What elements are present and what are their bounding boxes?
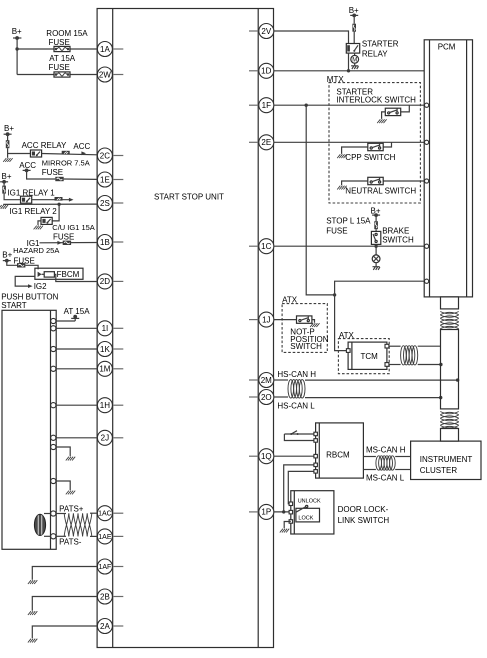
TCM pin (right lower) bbox=[385, 363, 389, 367]
RBCM pin (1Q) bbox=[314, 454, 318, 458]
pin 2V bbox=[249, 24, 274, 39]
svg-text:START STOP UNIT: START STOP UNIT bbox=[154, 193, 224, 202]
wire B+ to ROOM fuse to pin 1A bbox=[17, 48, 97, 50]
svg-text:2O: 2O bbox=[261, 393, 272, 402]
svg-text:1C: 1C bbox=[261, 242, 271, 251]
net arrow into C/U fuse bbox=[57, 241, 62, 245]
inline connector (IG1 line) bbox=[55, 197, 63, 201]
ground (push button a) bbox=[56, 447, 75, 460]
svg-text:1Q: 1Q bbox=[261, 452, 272, 461]
INSTRUMENT CLUSTER box bbox=[411, 441, 481, 479]
twisted pair (TCM-PCM harness) bbox=[401, 346, 418, 365]
wire pin 2M to twisted pair bbox=[274, 379, 288, 381]
wire RBCM to door lock (b) bbox=[288, 471, 314, 503]
wire twisted pair to cluster (MS-CAN H) bbox=[395, 456, 410, 458]
pin 1AC bbox=[97, 506, 123, 521]
svg-text:B+: B+ bbox=[12, 27, 22, 36]
twisted harness (lower) bbox=[440, 412, 458, 429]
svg-text:B+: B+ bbox=[2, 172, 12, 181]
wire 2S junction down to IG1 relay 2 bbox=[52, 204, 59, 221]
door lock pin (common) bbox=[289, 510, 293, 514]
svg-text:CLUSTER: CLUSTER bbox=[420, 466, 458, 475]
wire to pin 2S bbox=[3, 203, 97, 205]
fuse STOP L 15A bbox=[326, 217, 378, 236]
ground (1AF) bbox=[28, 567, 98, 585]
svg-text:STOP L 15A: STOP L 15A bbox=[326, 217, 371, 226]
wire twisted pair to harness trunk (upper) bbox=[418, 345, 441, 347]
svg-text:PATS-: PATS- bbox=[59, 537, 82, 546]
svg-text:1AF: 1AF bbox=[98, 564, 111, 571]
svg-text:1M: 1M bbox=[99, 365, 110, 374]
stop lamp bbox=[372, 246, 380, 267]
B+ power tap (starter relay) bbox=[349, 6, 359, 24]
svg-text:FBCM: FBCM bbox=[57, 270, 80, 279]
node junction brake switch on 1C wire bbox=[374, 245, 377, 248]
node junction starter relay on 1D wire bbox=[347, 69, 350, 72]
harness trunk stub above cluster bbox=[441, 429, 459, 442]
wire pin 1F to PCM (starter interlock line) bbox=[274, 104, 425, 106]
node junction on 1F wire bbox=[305, 104, 308, 107]
fuse (vertical, starter relay feed) bbox=[352, 24, 356, 32]
PCM box bbox=[424, 40, 472, 297]
wire RBCM to door lock (a) bbox=[284, 465, 314, 512]
wire hazard fuse to FBCM bbox=[25, 265, 38, 269]
svg-text:B+: B+ bbox=[2, 251, 12, 260]
wire HS-CAN L to trunk left edge bbox=[305, 396, 442, 399]
DOOR LOCK-LINK SWITCH box bbox=[291, 491, 334, 534]
wire twisted pair to cluster (MS-CAN L) bbox=[395, 469, 410, 471]
svg-text:INSTRUMENT: INSTRUMENT bbox=[420, 455, 473, 464]
ground (2B) bbox=[28, 597, 98, 616]
push button pin (gnd a) bbox=[51, 444, 56, 449]
B+ power tap (IG1 relays) bbox=[0, 172, 12, 185]
wire IG1 to fuse to pin 1B bbox=[40, 242, 98, 244]
svg-text:IG1 RELAY 2: IG1 RELAY 2 bbox=[9, 207, 57, 216]
push button pin (PATS-) bbox=[51, 534, 56, 539]
svg-text:FUSE: FUSE bbox=[42, 168, 63, 177]
wire push button to pin 1H bbox=[56, 404, 97, 406]
ground (not-P switch) bbox=[310, 323, 319, 327]
wire feed to ACC relay bbox=[8, 153, 31, 155]
wire pin 2O to twisted pair bbox=[274, 396, 288, 398]
svg-text:RELAY: RELAY bbox=[362, 50, 388, 59]
pin 2B bbox=[97, 589, 123, 604]
svg-text:1AE: 1AE bbox=[98, 534, 112, 541]
net arrow IG2 bbox=[15, 276, 47, 291]
wire pin 1P to door lock switch bbox=[274, 511, 291, 513]
svg-text:STARTER: STARTER bbox=[362, 40, 399, 49]
svg-text:2J: 2J bbox=[101, 434, 109, 443]
wire starter relay coil to 1D line bbox=[348, 53, 350, 71]
pin 2J bbox=[97, 430, 123, 445]
PCM pin bump (neutral) bbox=[425, 179, 429, 183]
svg-text:1P: 1P bbox=[261, 508, 271, 517]
svg-text:1E: 1E bbox=[100, 175, 110, 184]
wire pin 1C to PCM (brake line) bbox=[274, 245, 425, 247]
ground (IG1 relay 2) bbox=[34, 221, 43, 230]
start stop unit box bbox=[97, 8, 273, 648]
svg-text:2E: 2E bbox=[261, 138, 271, 147]
B+ power tap (stop lamp fuse) bbox=[371, 207, 381, 222]
switch NOT-P POSITION SWITCH bbox=[290, 316, 328, 351]
relay STARTER RELAY bbox=[346, 40, 398, 59]
MTX dashed box bbox=[327, 75, 421, 203]
wire pin 1D to PCM bbox=[274, 70, 424, 72]
label DOOR LOCK-LINK SWITCH bbox=[338, 505, 390, 525]
RBCM pin (loop a) bbox=[314, 432, 318, 436]
TCM pin (left) bbox=[346, 349, 350, 353]
twisted harness (upper) bbox=[440, 312, 458, 329]
svg-text:FUSE: FUSE bbox=[14, 257, 35, 266]
fuse MIRROR 7.5A bbox=[42, 159, 90, 182]
twisted pair (HS-CAN) bbox=[288, 380, 305, 398]
AT 15A power tap (push button) bbox=[56, 307, 90, 321]
svg-text:1B: 1B bbox=[100, 238, 110, 247]
svg-text:1K: 1K bbox=[100, 345, 110, 354]
pin 2E bbox=[249, 135, 274, 150]
wire PATS- to pin 1AE bbox=[56, 535, 97, 537]
ground (neutral switch) bbox=[337, 186, 346, 190]
switch NEUTRAL SWITCH bbox=[342, 177, 425, 195]
svg-text:M: M bbox=[352, 58, 357, 64]
svg-text:IG1 RELAY 1: IG1 RELAY 1 bbox=[7, 189, 55, 198]
svg-text:FUSE: FUSE bbox=[326, 226, 347, 235]
fuse C/U IG1 15A bbox=[52, 223, 95, 245]
ground (starter interlock switch) bbox=[377, 119, 386, 123]
svg-text:ACC: ACC bbox=[73, 142, 90, 151]
svg-text:ROOM 15A: ROOM 15A bbox=[46, 29, 88, 38]
RBCM pin (door b) bbox=[314, 470, 318, 474]
wire pin 1J to not-P switch bbox=[274, 319, 297, 321]
svg-text:ACC RELAY: ACC RELAY bbox=[22, 141, 67, 150]
svg-text:2M: 2M bbox=[261, 376, 272, 385]
PCM pin bump (brake) bbox=[425, 244, 429, 248]
node junction on 2S wire bbox=[57, 203, 60, 206]
pin 2A bbox=[97, 619, 123, 634]
svg-text:1D: 1D bbox=[261, 67, 271, 76]
svg-text:LOCK: LOCK bbox=[298, 515, 313, 521]
B+ power tap (top left) bbox=[12, 27, 22, 75]
fuse (vertical, ACC relay feed) bbox=[6, 140, 10, 148]
push button start box bbox=[1, 292, 58, 549]
B+ power tap (hazard fuse) bbox=[2, 251, 17, 266]
svg-text:C/U IG1 15A: C/U IG1 15A bbox=[52, 223, 95, 232]
PCM pin bump (interlock) bbox=[425, 103, 429, 107]
svg-text:MIRROR 7.5A: MIRROR 7.5A bbox=[42, 159, 90, 168]
svg-text:2W: 2W bbox=[99, 70, 111, 79]
push button pin (1K) bbox=[51, 346, 56, 351]
svg-text:MS-CAN L: MS-CAN L bbox=[366, 474, 405, 483]
harness trunk stub below PCM bbox=[441, 297, 459, 309]
wire HS-CAN H to trunk right edge bbox=[305, 378, 459, 381]
pin 1B bbox=[97, 235, 123, 250]
pin 2O bbox=[249, 390, 274, 405]
push button pin (AT15A) bbox=[51, 318, 56, 323]
wire mirror fuse to pin 1E bbox=[64, 178, 98, 180]
wire push button to pin 1M bbox=[56, 368, 97, 370]
push button pin (1H) bbox=[51, 403, 56, 408]
svg-text:2B: 2B bbox=[100, 592, 110, 601]
wire twisted pair to harness trunk (lower) with junction bbox=[418, 363, 443, 366]
node junction on 1A feed bbox=[15, 47, 18, 50]
svg-text:LINK SWITCH: LINK SWITCH bbox=[338, 516, 390, 525]
relay IG1 RELAY 2 bbox=[9, 207, 57, 225]
svg-text:AT 15A: AT 15A bbox=[64, 307, 91, 316]
svg-text:RBCM: RBCM bbox=[326, 451, 350, 460]
wire B+ to AT fuse to pin 2W bbox=[17, 74, 97, 76]
pin 1H bbox=[97, 398, 123, 413]
PCM pin bump (interlock feed) bbox=[425, 279, 429, 283]
svg-text:FUSE: FUSE bbox=[53, 233, 74, 242]
switch loop at RBCM (request switch) bbox=[284, 431, 314, 441]
svg-text:2S: 2S bbox=[100, 199, 110, 208]
ACC power tap (mirror fuse) bbox=[19, 161, 55, 179]
TCM pin (right upper) bbox=[385, 344, 389, 348]
wire RBCM to twisted pair (MS-CAN L) bbox=[363, 469, 376, 471]
svg-text:FUSE: FUSE bbox=[49, 63, 70, 72]
wire junction down to TCM bbox=[335, 295, 349, 351]
svg-text:1A: 1A bbox=[100, 45, 110, 54]
svg-text:1AC: 1AC bbox=[98, 511, 112, 518]
FBCM box bbox=[35, 268, 83, 279]
pin 1D bbox=[249, 63, 274, 78]
twisted pair (PATS) bbox=[64, 513, 92, 536]
net arrow ACC bbox=[73, 142, 90, 155]
svg-text:AT 15A: AT 15A bbox=[49, 54, 76, 63]
svg-text:START: START bbox=[1, 301, 27, 310]
switch STARTER INTERLOCK SWITCH bbox=[336, 87, 416, 119]
pin 1I bbox=[97, 321, 123, 336]
TCM box bbox=[348, 342, 387, 369]
svg-text:TCM: TCM bbox=[361, 352, 379, 361]
pin 2W bbox=[97, 67, 123, 82]
svg-text:PCM: PCM bbox=[438, 42, 456, 51]
RBCM pin (door a) bbox=[314, 463, 318, 467]
B+ power tap (ACC relay feed) bbox=[4, 124, 15, 141]
wire feed to IG1 relay 1 bbox=[4, 194, 20, 200]
svg-text:2A: 2A bbox=[100, 622, 110, 631]
svg-text:B+: B+ bbox=[349, 6, 359, 15]
ground (stop lamp) bbox=[373, 267, 380, 270]
pin 1A bbox=[97, 42, 123, 57]
wire TCM to twisted pair (upper) bbox=[389, 345, 401, 347]
pin 1Q bbox=[249, 449, 274, 464]
RBCM box bbox=[316, 423, 364, 478]
svg-text:HS-CAN L: HS-CAN L bbox=[277, 401, 315, 410]
svg-text:1F: 1F bbox=[262, 101, 271, 110]
pin 1P bbox=[249, 504, 274, 519]
pin 2C bbox=[97, 148, 123, 163]
wire TCM to twisted pair (lower) bbox=[389, 364, 401, 366]
pin 1AE bbox=[97, 529, 123, 544]
twisted pair (MS-CAN) bbox=[376, 456, 395, 470]
svg-text:FUSE: FUSE bbox=[49, 38, 70, 47]
relay ACC RELAY bbox=[22, 141, 67, 157]
node junction on 1P wire bbox=[282, 510, 285, 513]
ATX dashed box (not-P switch) bbox=[282, 295, 327, 352]
RBCM pin (loop b) bbox=[314, 439, 318, 443]
fuse ROOM 15A bbox=[46, 29, 88, 52]
svg-text:INTERLOCK SWITCH: INTERLOCK SWITCH bbox=[336, 96, 416, 105]
wire RBCM to twisted pair (MS-CAN H) bbox=[363, 456, 376, 458]
wire PATS+ to pin 1AC bbox=[56, 512, 97, 514]
svg-text:1I: 1I bbox=[102, 324, 109, 333]
fuse AT 15A bbox=[49, 54, 76, 77]
svg-text:HS-CAN H: HS-CAN H bbox=[277, 370, 316, 379]
pin 1M bbox=[97, 361, 123, 376]
wire push button to pin 1K bbox=[56, 348, 97, 350]
pin 1K bbox=[97, 342, 123, 357]
wire ACC relay to pin 2C bbox=[42, 154, 98, 155]
wire pin 2E to PCM (CPP line) bbox=[274, 141, 425, 143]
wire fuse to starter relay contact bbox=[353, 32, 355, 44]
node junction (interlock feed split) bbox=[333, 293, 336, 296]
wire IG1 relay 1 output bbox=[32, 199, 69, 201]
door lock pin (lock) bbox=[289, 520, 293, 524]
starter motor bbox=[351, 53, 359, 66]
svg-text:ACC: ACC bbox=[19, 161, 36, 170]
push button pin (PATS+) bbox=[51, 511, 56, 516]
net arrow IG1 relay 1 bbox=[69, 198, 74, 202]
pin 2D bbox=[97, 274, 123, 289]
PATS antenna coil bbox=[34, 514, 50, 537]
wire 1F branch down to junction bbox=[306, 105, 334, 295]
PCM pin bump (CPP) bbox=[425, 140, 429, 144]
fuse HAZARD 25A bbox=[13, 246, 59, 267]
wire pin 2V to starter relay coil bbox=[274, 31, 349, 44]
ATX dashed box (TCM) bbox=[338, 331, 389, 374]
push button pin (gnd b) bbox=[51, 478, 56, 483]
pin 1C bbox=[249, 239, 274, 254]
pin 2M bbox=[249, 373, 274, 388]
wire FBCM to pin 2D bbox=[54, 274, 97, 281]
push button pin (2J) bbox=[51, 435, 56, 440]
ground (CPP switch) bbox=[337, 154, 346, 158]
svg-text:DOOR LOCK-: DOOR LOCK- bbox=[338, 505, 389, 514]
ground (2S line left end) bbox=[0, 205, 8, 209]
pin 1E bbox=[97, 172, 123, 187]
ground (push button b) bbox=[56, 481, 75, 494]
pin 2S bbox=[97, 196, 123, 211]
pin 1J bbox=[249, 312, 274, 327]
switch CPP SWITCH bbox=[342, 142, 396, 162]
ground (door lock switch) bbox=[280, 522, 291, 533]
svg-text:SWITCH: SWITCH bbox=[382, 236, 414, 245]
svg-text:1J: 1J bbox=[262, 315, 270, 324]
ground (below ACC relay feed) bbox=[3, 148, 12, 162]
relay IG1 RELAY 1 bbox=[7, 189, 55, 204]
wire junction up to PCM bbox=[335, 281, 425, 295]
svg-text:BRAKE: BRAKE bbox=[382, 227, 409, 236]
svg-text:CPP SWITCH: CPP SWITCH bbox=[345, 153, 395, 162]
switch BRAKE SWITCH bbox=[371, 227, 414, 247]
svg-text:2V: 2V bbox=[261, 27, 271, 36]
door lock pin (unlock) bbox=[289, 502, 293, 506]
svg-text:UNLOCK: UNLOCK bbox=[298, 498, 321, 504]
push button pin (1I) bbox=[51, 326, 56, 331]
wire pin 1Q to RBCM bbox=[274, 455, 314, 457]
wire push button to pin 1I bbox=[56, 327, 97, 329]
ground (starter motor) bbox=[351, 66, 358, 69]
harness trunk (main) bbox=[441, 330, 459, 409]
pin 1F bbox=[249, 98, 274, 113]
svg-text:ATX: ATX bbox=[282, 295, 298, 304]
fuse (vertical, IG1 relay feed) bbox=[2, 186, 6, 194]
svg-text:HAZARD 25A: HAZARD 25A bbox=[13, 246, 59, 255]
pin 1AF bbox=[97, 559, 123, 574]
ground (2A) bbox=[28, 626, 98, 643]
wire push button to pin 2J bbox=[56, 437, 97, 439]
svg-text:1H: 1H bbox=[100, 401, 110, 410]
push button pin (1M) bbox=[51, 366, 56, 371]
svg-text:2C: 2C bbox=[100, 151, 110, 160]
svg-text:MS-CAN H: MS-CAN H bbox=[366, 446, 406, 455]
svg-text:SWITCH: SWITCH bbox=[290, 342, 322, 351]
svg-text:NEUTRAL SWITCH: NEUTRAL SWITCH bbox=[345, 187, 416, 196]
svg-text:2D: 2D bbox=[100, 277, 110, 286]
svg-text:B+: B+ bbox=[4, 124, 14, 133]
svg-text:IG2: IG2 bbox=[34, 282, 47, 291]
svg-text:PATS+: PATS+ bbox=[59, 505, 84, 514]
inline connector (ACC line) bbox=[62, 151, 70, 155]
